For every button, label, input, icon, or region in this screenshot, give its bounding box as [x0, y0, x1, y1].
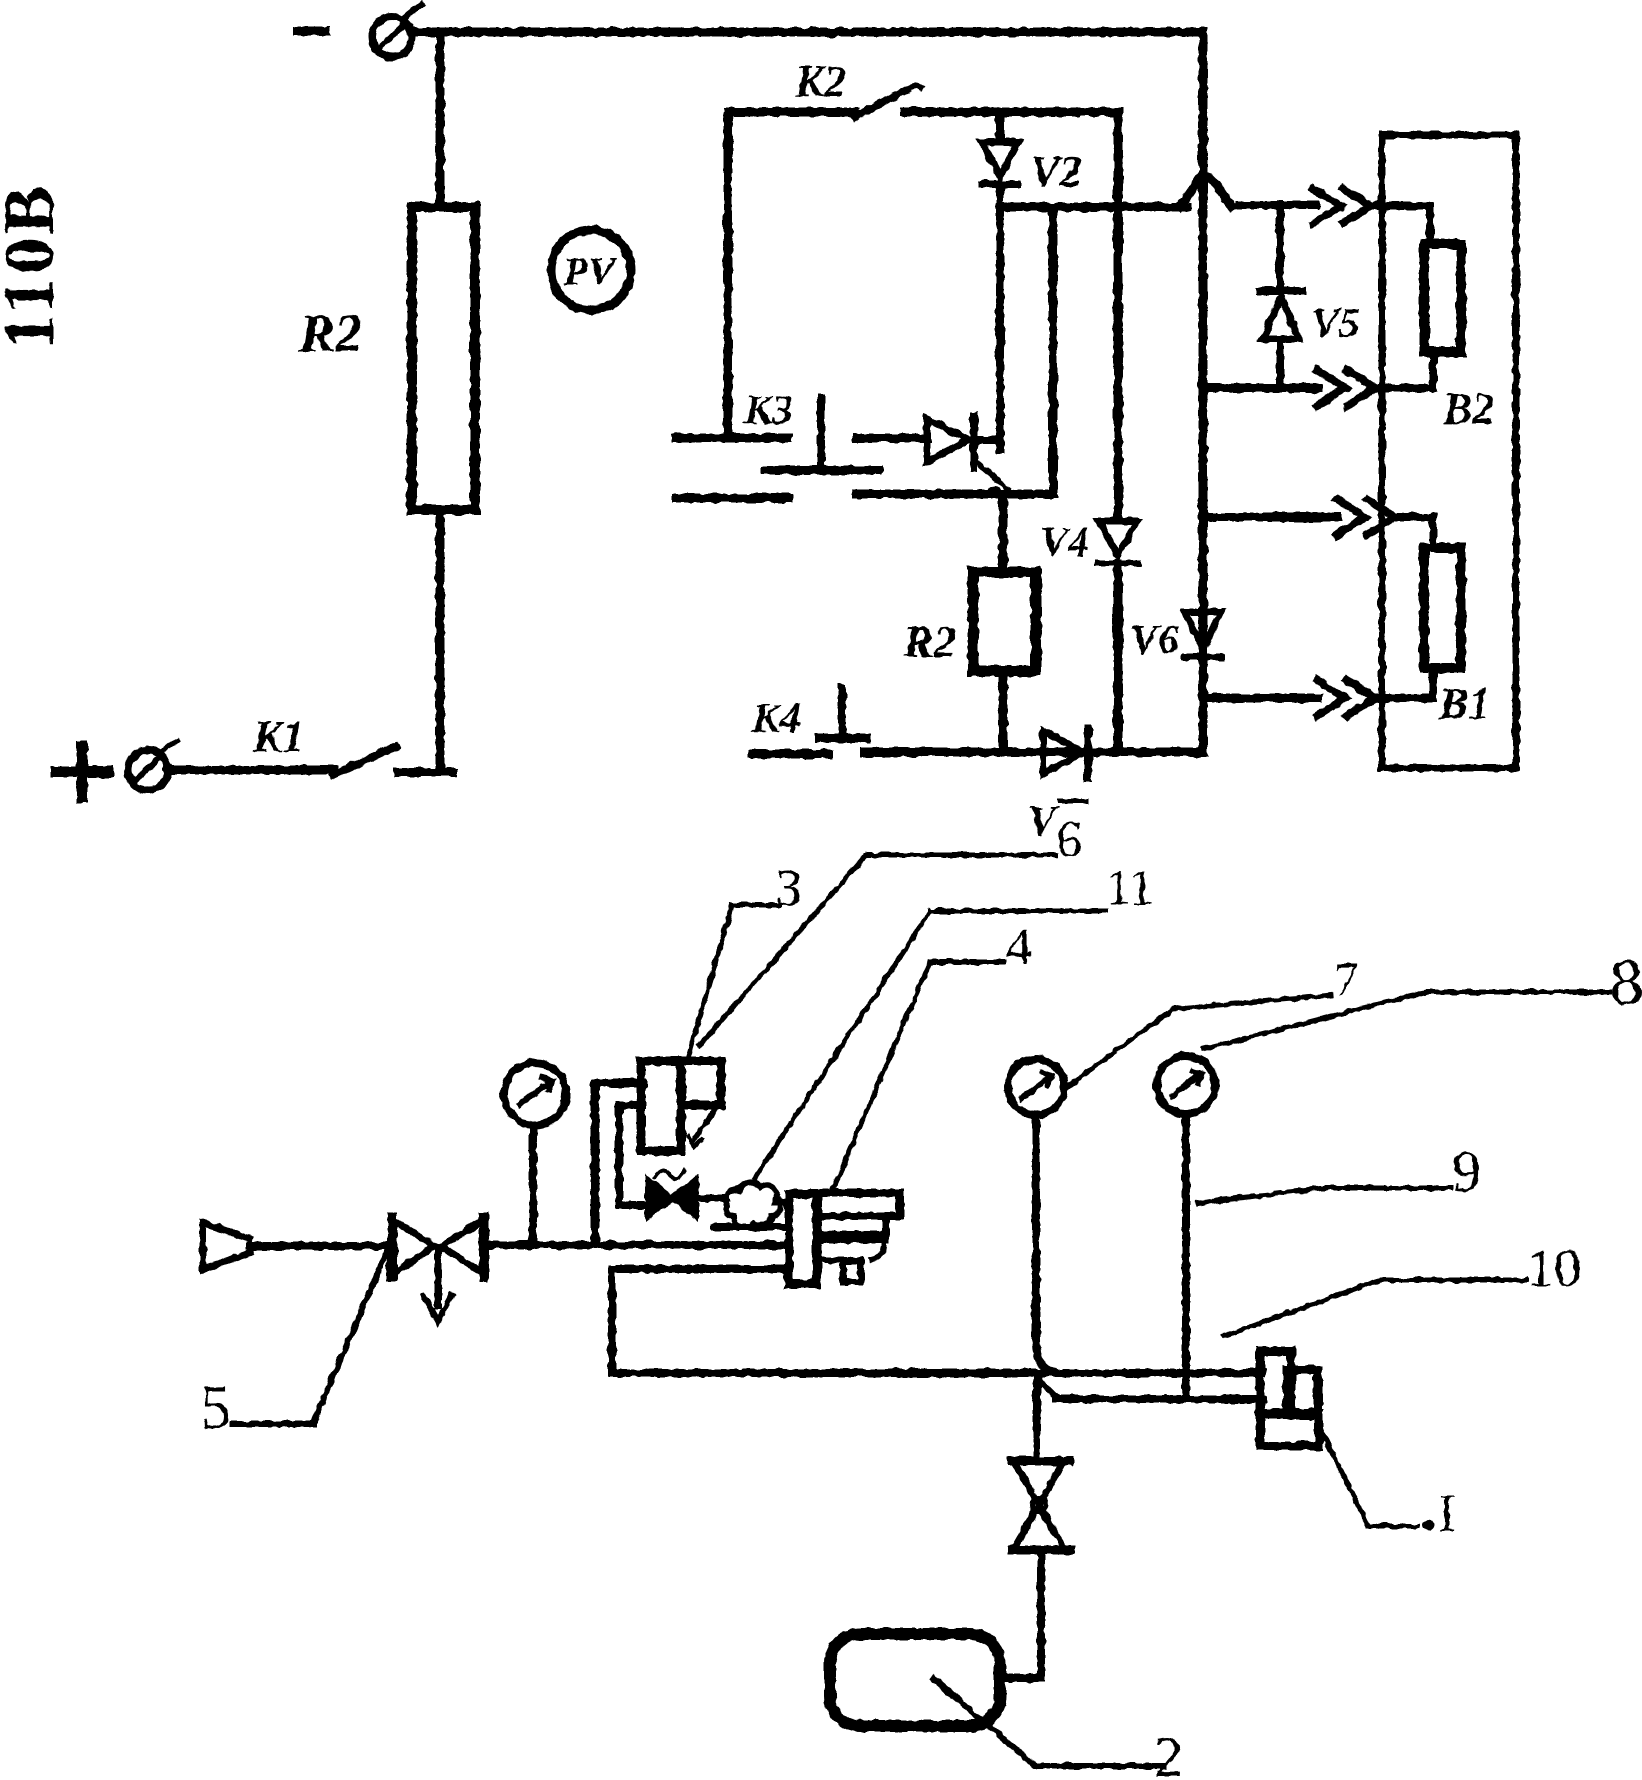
svg-text:4: 4 — [1006, 919, 1032, 976]
svg-text:110B: 110B — [0, 182, 69, 350]
svg-text:R2: R2 — [298, 303, 362, 363]
svg-text:I: I — [1438, 1483, 1456, 1543]
svg-text:5: 5 — [200, 1374, 231, 1442]
svg-text:K3: K3 — [743, 388, 793, 434]
svg-text:V2: V2 — [1030, 147, 1081, 196]
svg-text:8: 8 — [1610, 946, 1642, 1019]
svg-text:V4: V4 — [1040, 520, 1089, 566]
svg-text:11: 11 — [1106, 859, 1154, 915]
svg-text:PV: PV — [562, 249, 617, 294]
svg-text:9: 9 — [1452, 1139, 1481, 1204]
svg-text:K4: K4 — [751, 696, 801, 742]
svg-text:V6: V6 — [1130, 618, 1179, 664]
svg-text:2: 2 — [1154, 1724, 1183, 1780]
svg-text:B2: B2 — [1442, 384, 1494, 433]
svg-text:V: V — [1028, 799, 1059, 845]
svg-text:K1: K1 — [252, 712, 304, 761]
svg-text:V5: V5 — [1311, 301, 1360, 347]
svg-text:R2: R2 — [902, 616, 957, 667]
svg-text:7: 7 — [1334, 953, 1358, 1006]
svg-text:3: 3 — [776, 860, 802, 917]
svg-text:K2: K2 — [794, 57, 846, 106]
svg-text:6: 6 — [1056, 812, 1082, 869]
svg-text:10: 10 — [1527, 1238, 1581, 1298]
svg-text:B1: B1 — [1438, 679, 1490, 728]
